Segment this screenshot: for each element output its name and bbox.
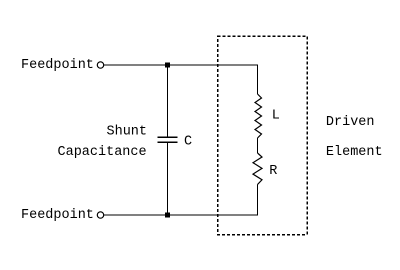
svg-text:Element: Element bbox=[326, 145, 383, 160]
svg-text:Shunt: Shunt bbox=[107, 124, 148, 139]
svg-text:Driven: Driven bbox=[326, 115, 375, 130]
svg-text:Capacitance: Capacitance bbox=[58, 145, 147, 160]
svg-text:L: L bbox=[272, 108, 280, 123]
svg-text:R: R bbox=[269, 164, 277, 179]
svg-text:Feedpoint: Feedpoint bbox=[21, 58, 94, 73]
svg-text:C: C bbox=[184, 134, 192, 149]
svg-text:Feedpoint: Feedpoint bbox=[21, 208, 94, 223]
